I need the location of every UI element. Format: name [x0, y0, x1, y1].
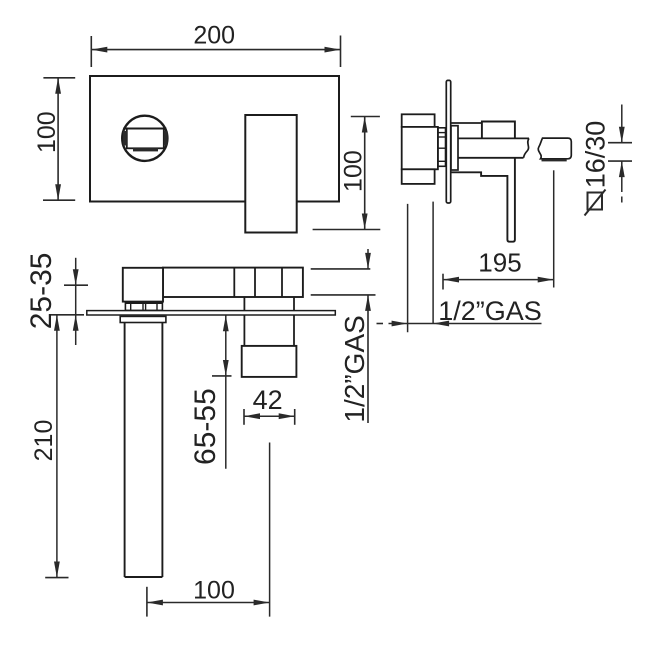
gas dim lower line / text underline	[367, 295, 369, 423]
valve body top cap	[402, 114, 435, 127]
valve-axis extension line	[269, 443, 271, 617]
gas dim up arrow	[365, 295, 371, 311]
dim 16/30 bottom tick	[608, 160, 632, 162]
dim 100-left bottom arrow	[55, 184, 61, 200]
mounting nut	[125, 303, 162, 310]
spout tip piece (broken-out)	[538, 138, 571, 159]
gas leader line left part	[389, 323, 434, 325]
gas dim top tick	[311, 268, 371, 270]
dim 25-35 up arrow	[73, 315, 79, 331]
drop pipe left side	[124, 323, 126, 578]
valve body middle	[402, 127, 438, 169]
dim 200 line	[91, 49, 340, 51]
svg-text:42: 42	[253, 385, 283, 415]
svg-text:65-55: 65-55	[189, 388, 222, 465]
dim 25-35 upper line	[75, 258, 77, 285]
dim 100-left top tick	[43, 77, 75, 79]
dim 16/30 top tick	[608, 142, 632, 144]
dim 200 right extension tick	[340, 36, 342, 68]
dim 65-55 line	[225, 315, 227, 469]
control left thick mark	[123, 131, 127, 146]
spout pipe top line	[458, 137, 529, 139]
dim 200 right arrow	[325, 47, 341, 53]
inlet valve right side	[293, 297, 295, 346]
wall plate (side view)	[87, 311, 335, 315]
control right thick mark	[164, 131, 168, 146]
gas dim upper line	[367, 249, 369, 269]
dim 100-right line	[364, 117, 366, 230]
dim 65-55 top arrow	[223, 315, 229, 331]
dim 16/30 lower line	[621, 161, 623, 192]
dim 100-left top arrow	[55, 78, 61, 94]
valve left extension line	[407, 204, 409, 332]
spout bar joint line 3	[281, 268, 283, 297]
handle (front view)	[245, 115, 296, 233]
dim 100-left line	[57, 78, 59, 200]
gas leader dash	[377, 323, 384, 325]
dim 42 right arrow	[279, 413, 295, 419]
gas dim down arrow	[365, 253, 371, 269]
drop pipe right side	[161, 323, 163, 578]
gas leader line right part	[433, 323, 541, 325]
dim 195 line	[443, 279, 554, 281]
dim 16/30 up arrow	[619, 161, 625, 177]
dim 210 bottom arrow	[54, 562, 60, 578]
control bottom thick mark	[133, 148, 158, 151]
pipe break squiggle	[524, 138, 530, 157]
square-section symbol slash	[585, 190, 606, 216]
circle chord line	[123, 128, 166, 130]
svg-text:100: 100	[193, 577, 235, 605]
dim 100-left bottom tick	[43, 199, 75, 201]
spout bar joint line 1	[233, 268, 235, 297]
dim 200 left arrow	[91, 47, 107, 53]
svg-text:1/2”GAS: 1/2”GAS	[438, 296, 542, 326]
dim 100-right top tick	[351, 116, 380, 118]
svg-text:25-35: 25-35	[25, 253, 58, 330]
dim 100-right top arrow	[362, 117, 368, 133]
spout bar joint line 2	[254, 268, 256, 297]
dim 25-35 upper tick	[64, 284, 88, 286]
svg-text:210: 210	[30, 420, 58, 462]
svg-text:100: 100	[33, 111, 61, 153]
cartridge stack	[438, 128, 446, 167]
dim 100-right bottom arrow	[362, 214, 368, 230]
gas leader right-pointing arrow	[392, 321, 408, 327]
svg-text:16/30: 16/30	[581, 121, 611, 189]
dim 42 line	[244, 415, 295, 417]
svg-text:200: 200	[193, 21, 235, 49]
spout pipe bottom line	[458, 157, 524, 159]
dim 25-35 mid line	[75, 285, 77, 315]
dim 65-55 bottom arrow	[223, 360, 229, 376]
inlet valve left side	[243, 297, 245, 346]
dim 42 left arrow	[244, 413, 260, 419]
valve body bottom cap	[402, 169, 435, 184]
dim 25-35 down arrow	[73, 269, 79, 285]
dim 100-bottom line	[147, 602, 270, 604]
dim 65-55 bottom tick	[212, 375, 232, 377]
inlet valve lower body	[242, 346, 297, 377]
dim 195 right arrow	[538, 277, 554, 283]
socket block	[451, 126, 458, 170]
dim 200 left extension tick	[90, 36, 92, 67]
dim 25-35 lower tail	[75, 315, 77, 345]
spout flange below plate	[120, 316, 166, 322]
wall plate (front view)	[90, 76, 339, 202]
dim 42 right tick	[294, 409, 296, 425]
drop pipe bottom end	[125, 576, 163, 578]
spout tip extension line	[553, 170, 555, 287]
dim 195 left arrow	[443, 277, 459, 283]
dim 195 left tick	[442, 274, 444, 290]
square-section symbol box	[588, 193, 603, 210]
wall plate edge (side view)	[446, 80, 450, 203]
plate-level extension tick	[49, 314, 84, 316]
spout bar (side view)	[163, 268, 303, 297]
handle body top (side view)	[482, 122, 515, 139]
dim 100-bottom left arrow	[147, 600, 163, 606]
spout elbow block	[123, 268, 163, 302]
dim 42 left tick	[243, 409, 245, 425]
adapter top line	[452, 122, 482, 124]
dim 100-bottom left tick	[146, 587, 148, 617]
svg-text:100: 100	[339, 150, 367, 192]
spout aerator strip	[542, 159, 567, 162]
control insert rectangle	[127, 129, 164, 149]
dim 210 top arrow	[54, 315, 60, 331]
aerator/control circle	[122, 116, 167, 161]
dim 16/30 upper line	[621, 105, 623, 143]
dim 100-right bottom tick	[313, 229, 381, 231]
svg-text:195: 195	[478, 247, 521, 277]
dim 16/30 down arrow	[619, 127, 625, 143]
dim 210 line	[56, 315, 58, 578]
handle lever (side view)	[452, 158, 515, 242]
gas dim bottom tick	[311, 294, 376, 296]
svg-text:1/2”GAS: 1/2”GAS	[339, 315, 370, 422]
dim 210 bottom tick	[45, 577, 68, 579]
valve right extension line	[432, 202, 434, 324]
dim 100-bottom right arrow	[254, 600, 270, 606]
gas leader left-pointing arrow	[433, 321, 449, 327]
dim 16/30 tail dash	[621, 197, 623, 203]
